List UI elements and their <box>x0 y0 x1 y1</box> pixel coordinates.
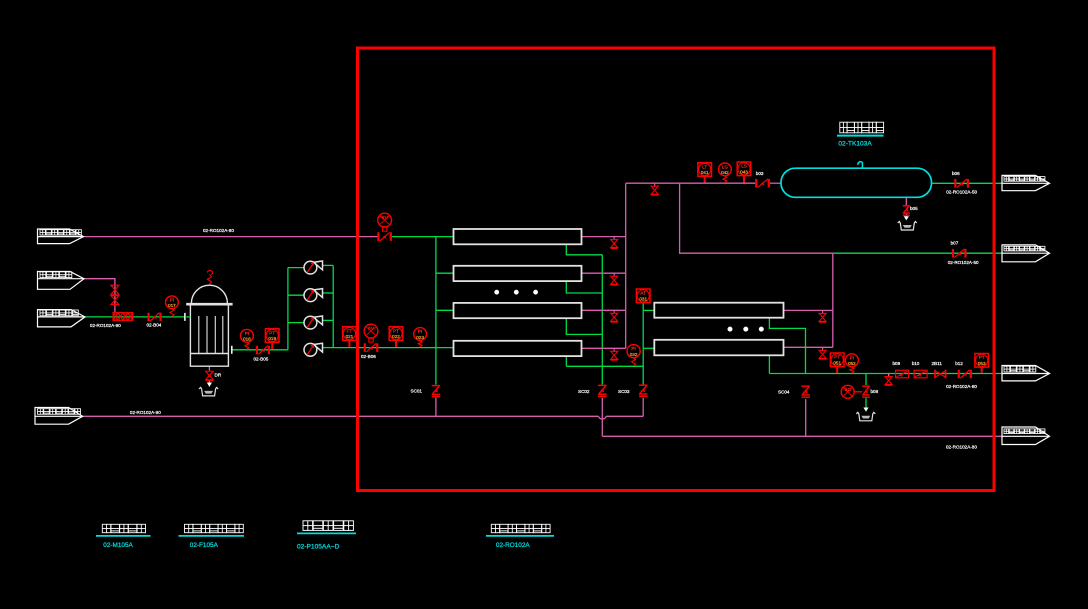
level gauge LG on tank inlet <box>719 163 732 176</box>
svg-text:SC03: SC03 <box>618 389 630 394</box>
svg-text:02-M105A: 02-M105A <box>103 542 133 549</box>
arrow into filter funnel <box>207 383 212 387</box>
svg-text:PI: PI <box>245 331 249 336</box>
pipe M5 brine stub (magenta) <box>784 309 833 311</box>
pipe recycle loop down (magenta) <box>680 183 833 347</box>
pipe tank outlet line to flag 1 (green) <box>932 182 1003 184</box>
AT analyser square on stage-2 feed top <box>636 289 650 303</box>
pipe tank inlet spool after check valve (magenta) <box>770 182 782 184</box>
filter outlet nozzle tick <box>231 346 233 354</box>
filter outlet pipe short (green) <box>186 316 190 318</box>
capped drain valve under M5 brine stub <box>822 310 824 314</box>
pump P2 <box>304 289 317 302</box>
svg-text:b08: b08 <box>871 389 879 394</box>
pipe feed line to membrane M1 (green) <box>390 236 454 238</box>
svg-text:017: 017 <box>168 303 176 308</box>
svg-text:02-B04: 02-B04 <box>147 323 162 328</box>
ellipsis dots bank 2 <box>728 327 764 332</box>
svg-text:PI: PI <box>850 355 854 360</box>
label pipeline mixer title <box>102 524 145 532</box>
membrane module M5 <box>654 303 783 318</box>
pipe concentrate collector vertical (magenta) <box>625 183 627 348</box>
flow orifice 1 on product line <box>896 370 909 378</box>
sample point Z1 on feed manifold <box>432 386 441 397</box>
pipe pump3 discharge stub <box>323 319 334 321</box>
svg-text:LT: LT <box>702 164 707 169</box>
pipe filter outlet to pump suction manifold (green) <box>233 349 288 351</box>
pressure gauge PI on discharge header <box>414 328 427 341</box>
svg-text:02-B06: 02-B06 <box>361 354 376 359</box>
capped drain valve under M3 brine stub <box>613 310 615 314</box>
pressure transmitter PT on discharge header <box>389 327 403 341</box>
pipe product drain drop at funnel (green) <box>865 374 867 386</box>
flag D CIP return (left) <box>35 408 83 425</box>
flag B antiscalant dosing (left) <box>38 272 85 290</box>
svg-text:041: 041 <box>701 170 709 175</box>
membrane module M2 <box>454 266 582 281</box>
flag 4 drain to trench (right) <box>1002 427 1050 445</box>
svg-text:2B11: 2B11 <box>932 361 943 366</box>
pipe feed stub to membrane M3 <box>436 309 454 311</box>
svg-text:b07: b07 <box>951 241 959 246</box>
pipe concentrate stub M2 <box>582 272 626 274</box>
svg-text:b06: b06 <box>952 171 960 176</box>
control valve with actuator on discharge header <box>364 324 378 338</box>
check valve on feed line after mixer <box>149 313 161 322</box>
level switch LS square on tank inlet <box>737 162 751 176</box>
pipe pump2 discharge stub <box>323 292 334 294</box>
tank title label <box>840 122 884 133</box>
svg-text:b03: b03 <box>756 171 764 176</box>
pipe tank drain (magenta) <box>905 197 907 205</box>
svg-text:043: 043 <box>740 169 748 174</box>
svg-text:02-RO102A-80: 02-RO102A-80 <box>946 445 977 450</box>
capped drain valve under M1 brine stub <box>613 237 615 241</box>
svg-text:052: 052 <box>848 361 856 366</box>
svg-text:023: 023 <box>416 335 424 340</box>
pipe stage-2 feed manifold vertical (green) <box>642 302 644 385</box>
pipe filter drain (magenta) <box>208 366 210 370</box>
sample valve Z on product funnel drop <box>862 386 870 397</box>
membrane module M3 <box>454 303 582 318</box>
butterfly valve on product line <box>935 370 946 379</box>
svg-text:021: 021 <box>346 334 354 339</box>
pipe pump1 suction stub <box>288 267 304 269</box>
pipe permeate bend M2 <box>566 281 602 293</box>
pipe concentrate stub M3 <box>582 309 626 311</box>
svg-text:PI: PI <box>170 297 174 302</box>
svg-text:031: 031 <box>639 296 647 301</box>
pipe M5 permeate bend (green) <box>769 318 805 374</box>
flag 1 product to users (right) <box>1002 175 1050 190</box>
gate valve on product line <box>959 370 971 379</box>
svg-text:02-RO102A-80: 02-RO102A-80 <box>203 228 234 233</box>
svg-text:02-TK103A: 02-TK103A <box>838 141 872 148</box>
pipe stage-2 feed stub M6 <box>643 347 654 349</box>
pipe M6 brine stub (magenta) <box>784 346 833 348</box>
pressure square PT on product line left <box>830 353 844 367</box>
level transmitter LT square on tank inlet <box>698 163 712 177</box>
pipe permeate bend M3 <box>566 318 602 334</box>
arrow into tank funnel <box>904 216 909 220</box>
valve on tank outlet line <box>955 179 968 188</box>
capped sample valve under product line <box>888 374 890 378</box>
svg-text:053: 053 <box>978 361 986 366</box>
membrane module M1 <box>454 229 582 244</box>
capped drain valve under M2 brine stub <box>613 273 615 277</box>
capped drain valve on tank header <box>654 183 656 187</box>
flag A CIP water inlet (left) <box>38 229 84 244</box>
valve on filter outlet line <box>257 346 269 355</box>
pipe feed water line from flag C (green) <box>85 316 185 318</box>
filter inlet nozzle tick <box>184 313 186 321</box>
pipe high pressure discharge header (green) <box>333 347 453 349</box>
filter drain valve <box>206 371 214 380</box>
svg-text:02-RO102A: 02-RO102A <box>496 542 530 549</box>
pressure gauge PI on product line <box>845 354 858 367</box>
pipe pump1 discharge stub <box>323 264 334 266</box>
check valve on tank inlet <box>756 179 769 188</box>
flag C stage-1 RO product feed (left) <box>38 310 86 327</box>
double dosing valves on flag B line <box>111 285 119 294</box>
filter vent valve on dome <box>207 270 212 284</box>
battery limit border (red rectangle) <box>358 48 995 491</box>
pipe concentrate stub M1 (magenta) <box>582 236 626 238</box>
pump P1 <box>304 261 317 274</box>
svg-text:02-RO102A-50: 02-RO102A-50 <box>946 190 977 195</box>
pipe permeate collector vertical (green) <box>601 255 603 385</box>
svg-text:051: 051 <box>833 360 841 365</box>
svg-text:PI: PI <box>418 329 422 334</box>
pipe pump suction manifold (green) <box>287 268 289 350</box>
pressure square PT before flag 3 <box>975 354 989 368</box>
pipe pump4 discharge stub <box>323 347 334 349</box>
svg-text:SC01: SC01 <box>411 388 423 393</box>
pipe pump2 suction stub <box>288 294 304 296</box>
svg-text:019: 019 <box>268 336 276 341</box>
pipe permeate bend M1 (green) <box>566 244 602 255</box>
svg-text:PI: PI <box>631 346 635 351</box>
svg-text:02-F105A: 02-F105A <box>190 542 219 549</box>
capped drain valve under M4 brine stub <box>613 348 615 352</box>
funnel under filter drain <box>199 387 218 396</box>
static mixer 02-M105A <box>113 313 133 321</box>
svg-text:02-RO102A-50: 02-RO102A-50 <box>948 260 979 265</box>
pipe Z4 drop to header B (magenta) <box>805 399 807 436</box>
flag 2 recovered water return (right) <box>1002 245 1050 262</box>
svg-text:018: 018 <box>243 337 251 342</box>
funnel under tank drain <box>898 222 917 231</box>
pipe Z1 drop to header A (magenta) <box>435 398 437 417</box>
svg-text:FT: FT <box>347 328 353 333</box>
pressure gauge PI on feed line <box>166 296 179 309</box>
pipe drain header B to flag 4 (magenta) <box>602 435 1002 437</box>
pipe CIP supply line from flag A (magenta) <box>84 236 380 238</box>
pipe stage-2 feed stub M5 <box>643 309 654 311</box>
capped drain valve under M6 brine stub <box>822 347 824 351</box>
pipe product water line to flag 3 (green) <box>769 373 1002 375</box>
pipe concentrate top header to tank (magenta) <box>626 182 756 184</box>
pipe permeate cross header to stage-2 feed (green) <box>566 365 643 367</box>
svg-text:DR: DR <box>215 373 222 378</box>
svg-text:02-RO102A-80: 02-RO102A-80 <box>946 384 977 389</box>
pipe pump discharge manifold (green) <box>332 265 334 347</box>
valve on recovered water line <box>953 249 966 258</box>
svg-text:02-P105AA~D: 02-P105AA~D <box>297 544 340 551</box>
pressure gauge PI on filter outlet <box>241 329 254 342</box>
pressure transmitter square on pump suction <box>265 329 279 343</box>
pipe dosing line from flag B (magenta) <box>84 279 115 313</box>
svg-text:042: 042 <box>721 170 729 175</box>
sample cock circle at product funnel <box>841 385 854 398</box>
sample point Z3 on stage-2 feed <box>639 385 648 396</box>
sample point Z2 on permeate collector <box>598 385 607 396</box>
svg-text:02-RO102A-80: 02-RO102A-80 <box>90 323 121 328</box>
label stage-2 RO unit title <box>491 524 550 532</box>
label security filter title <box>185 524 244 532</box>
svg-text:SC04: SC04 <box>778 390 790 395</box>
tank drain valve Z <box>903 206 910 216</box>
ellipsis dots bank 1 <box>494 290 538 295</box>
pipe product line sample stub (magenta) <box>888 374 890 378</box>
svg-text:b12: b12 <box>955 361 963 366</box>
pipe recovered water line to flag 2 (green) <box>833 252 1002 254</box>
pump P4 <box>304 343 317 356</box>
pipe permeate bend M4 <box>565 356 567 366</box>
svg-text:b10: b10 <box>912 361 920 366</box>
flow orifice 2 on product line <box>914 370 927 378</box>
pipe M6 permeate bend (green) <box>768 356 770 374</box>
svg-text:022: 022 <box>392 334 400 339</box>
pipe feed stub to membrane M2 <box>436 272 454 274</box>
svg-text:LG: LG <box>722 164 729 169</box>
svg-text:b09: b09 <box>893 361 901 366</box>
pipe concentrate stub M4 <box>582 347 626 349</box>
svg-text:PT: PT <box>393 328 399 333</box>
svg-text:02-RO102A-80: 02-RO102A-80 <box>130 410 161 415</box>
membrane module M6 <box>654 340 783 356</box>
pressure gauge on stage-2 feed header <box>627 345 640 358</box>
pipe membrane feed manifold vertical (green) <box>435 237 437 385</box>
membrane module M4 <box>454 341 582 356</box>
svg-text:PT: PT <box>269 330 275 335</box>
svg-text:b05: b05 <box>910 206 918 211</box>
funnel under product sample drain <box>856 412 875 421</box>
svg-text:PT: PT <box>979 355 985 360</box>
flag 3 RO product out (right) <box>1002 366 1050 381</box>
pump P3 <box>304 316 317 329</box>
sample point Z4 on product line <box>801 386 810 397</box>
svg-text:PT: PT <box>834 355 840 360</box>
pipe drain header A riser to Z3 <box>642 398 644 417</box>
label high pressure pump title <box>303 521 353 531</box>
arrow into product funnel <box>863 408 868 412</box>
svg-text:032: 032 <box>630 352 638 357</box>
pipe drain header A from flag D (magenta) <box>83 415 599 417</box>
recovery water tank 02-TK103A (cyan stadium) <box>781 168 932 197</box>
pipe pump3 suction stub <box>288 322 304 324</box>
pipe Z2 drop through header A to header B (magenta) <box>601 398 603 437</box>
svg-text:LS: LS <box>741 164 747 169</box>
tank vent nozzle curl <box>858 162 863 169</box>
flow transmitter FT on discharge header <box>343 327 357 341</box>
security filter 02-F105A vessel <box>186 285 232 366</box>
svg-text:AT: AT <box>640 291 646 296</box>
svg-text:SC02: SC02 <box>578 389 590 394</box>
feed control valve XV with actuator on membrane feed <box>378 213 392 227</box>
svg-text:02-B05: 02-B05 <box>254 357 269 362</box>
